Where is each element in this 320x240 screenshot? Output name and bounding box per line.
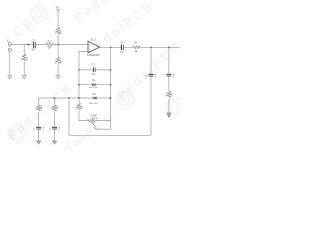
wire bias rail / diode rail 2	[39, 97, 111, 99]
watermark chip icon right-edge	[162, 93, 189, 120]
ground R4	[55, 76, 60, 79]
ground R2	[22, 76, 27, 79]
watermark text PedalPCB upper middle	[83, 0, 158, 59]
resistor R7 bias left	[38, 98, 40, 127]
watermark chip icon center-right	[113, 87, 140, 114]
connector X1 input jack	[8, 43, 11, 46]
watermark text PedalPCB bottom	[43, 108, 118, 168]
svg-text:1M: 1M	[27, 57, 29, 60]
svg-text:With Rail: With Rail	[89, 102, 98, 105]
capacitor C5 output series	[121, 45, 124, 51]
resistor R5 output series	[133, 46, 140, 49]
node dots rail 2	[54, 97, 56, 99]
watermark text tail top-left	[10, 14, 38, 40]
capacitor C1	[33, 42, 36, 48]
node junction dot	[28, 44, 30, 46]
watermark chip icon bottom-left	[5, 120, 32, 147]
capacitor C3 bias left	[36, 127, 41, 130]
diode D2 pair	[92, 97, 97, 100]
wire diode rail 1	[79, 84, 111, 86]
node dot out2	[168, 47, 170, 49]
svg-text:TDA2030A: TDA2030A	[87, 53, 100, 57]
node dot A cap rail	[78, 69, 80, 71]
wire feedback right vertical	[110, 47, 112, 129]
svg-text:4u7: 4u7	[120, 51, 125, 54]
wire left vertical feedback	[78, 70, 80, 121]
svg-text:Soft Sym: Soft Sym	[89, 86, 98, 89]
ground arrow output	[167, 113, 171, 117]
svg-text:9V: 9V	[56, 6, 59, 9]
capacitor C4 bias right	[52, 127, 57, 130]
wiper arrow	[92, 122, 110, 129]
node junction dot bias	[57, 44, 59, 46]
wire R2 stem	[23, 45, 25, 76]
svg-text:1M: 1M	[48, 47, 51, 50]
diode D1 pair	[92, 83, 97, 86]
svg-text:100n: 100n	[155, 72, 157, 78]
resistor R6	[77, 103, 81, 109]
wire output	[100, 46, 180, 48]
wire main top	[12, 44, 89, 46]
wire R4 stem	[57, 45, 59, 76]
svg-text:IC1.1: IC1.1	[91, 38, 97, 41]
wire branch C7	[168, 47, 170, 112]
resistor R8 bias right	[54, 98, 56, 127]
capacitor C6	[148, 74, 153, 77]
resistor R3	[46, 43, 54, 46]
capacitor C2 feedback	[93, 67, 96, 72]
wire inverting input	[79, 51, 88, 70]
node dot out1	[150, 47, 152, 49]
svg-text:-: -	[89, 50, 90, 53]
node output dot	[110, 47, 112, 49]
watermark text PedalPCB left	[4, 79, 77, 143]
ground input jack	[7, 76, 12, 79]
watermark chip icon top-left	[26, 1, 53, 28]
watermark text PedalPCB right	[114, 37, 185, 103]
resistor R2	[22, 54, 26, 61]
op-amp IC1.1	[88, 41, 100, 53]
ground C3 arrow	[36, 141, 41, 144]
ground C4 arrow	[52, 141, 57, 144]
node dots diode rail 1	[78, 84, 80, 86]
capacitor C7 polarized	[166, 74, 171, 77]
svg-text:100u: 100u	[174, 72, 176, 78]
wire cap rail	[79, 69, 111, 71]
wire supply	[57, 11, 59, 45]
svg-text:47p: 47p	[91, 73, 96, 76]
svg-text:4n7: 4n7	[31, 49, 36, 52]
resistor R1	[56, 28, 60, 34]
wire branch C6	[150, 47, 152, 135]
potentiometer GAIN	[79, 119, 111, 122]
wire input to ground	[9, 51, 11, 75]
wire bottom rail	[69, 98, 151, 135]
resistor R4	[56, 57, 60, 63]
resistor R9	[167, 91, 171, 97]
watermark text PedalPCB top	[71, 0, 146, 26]
